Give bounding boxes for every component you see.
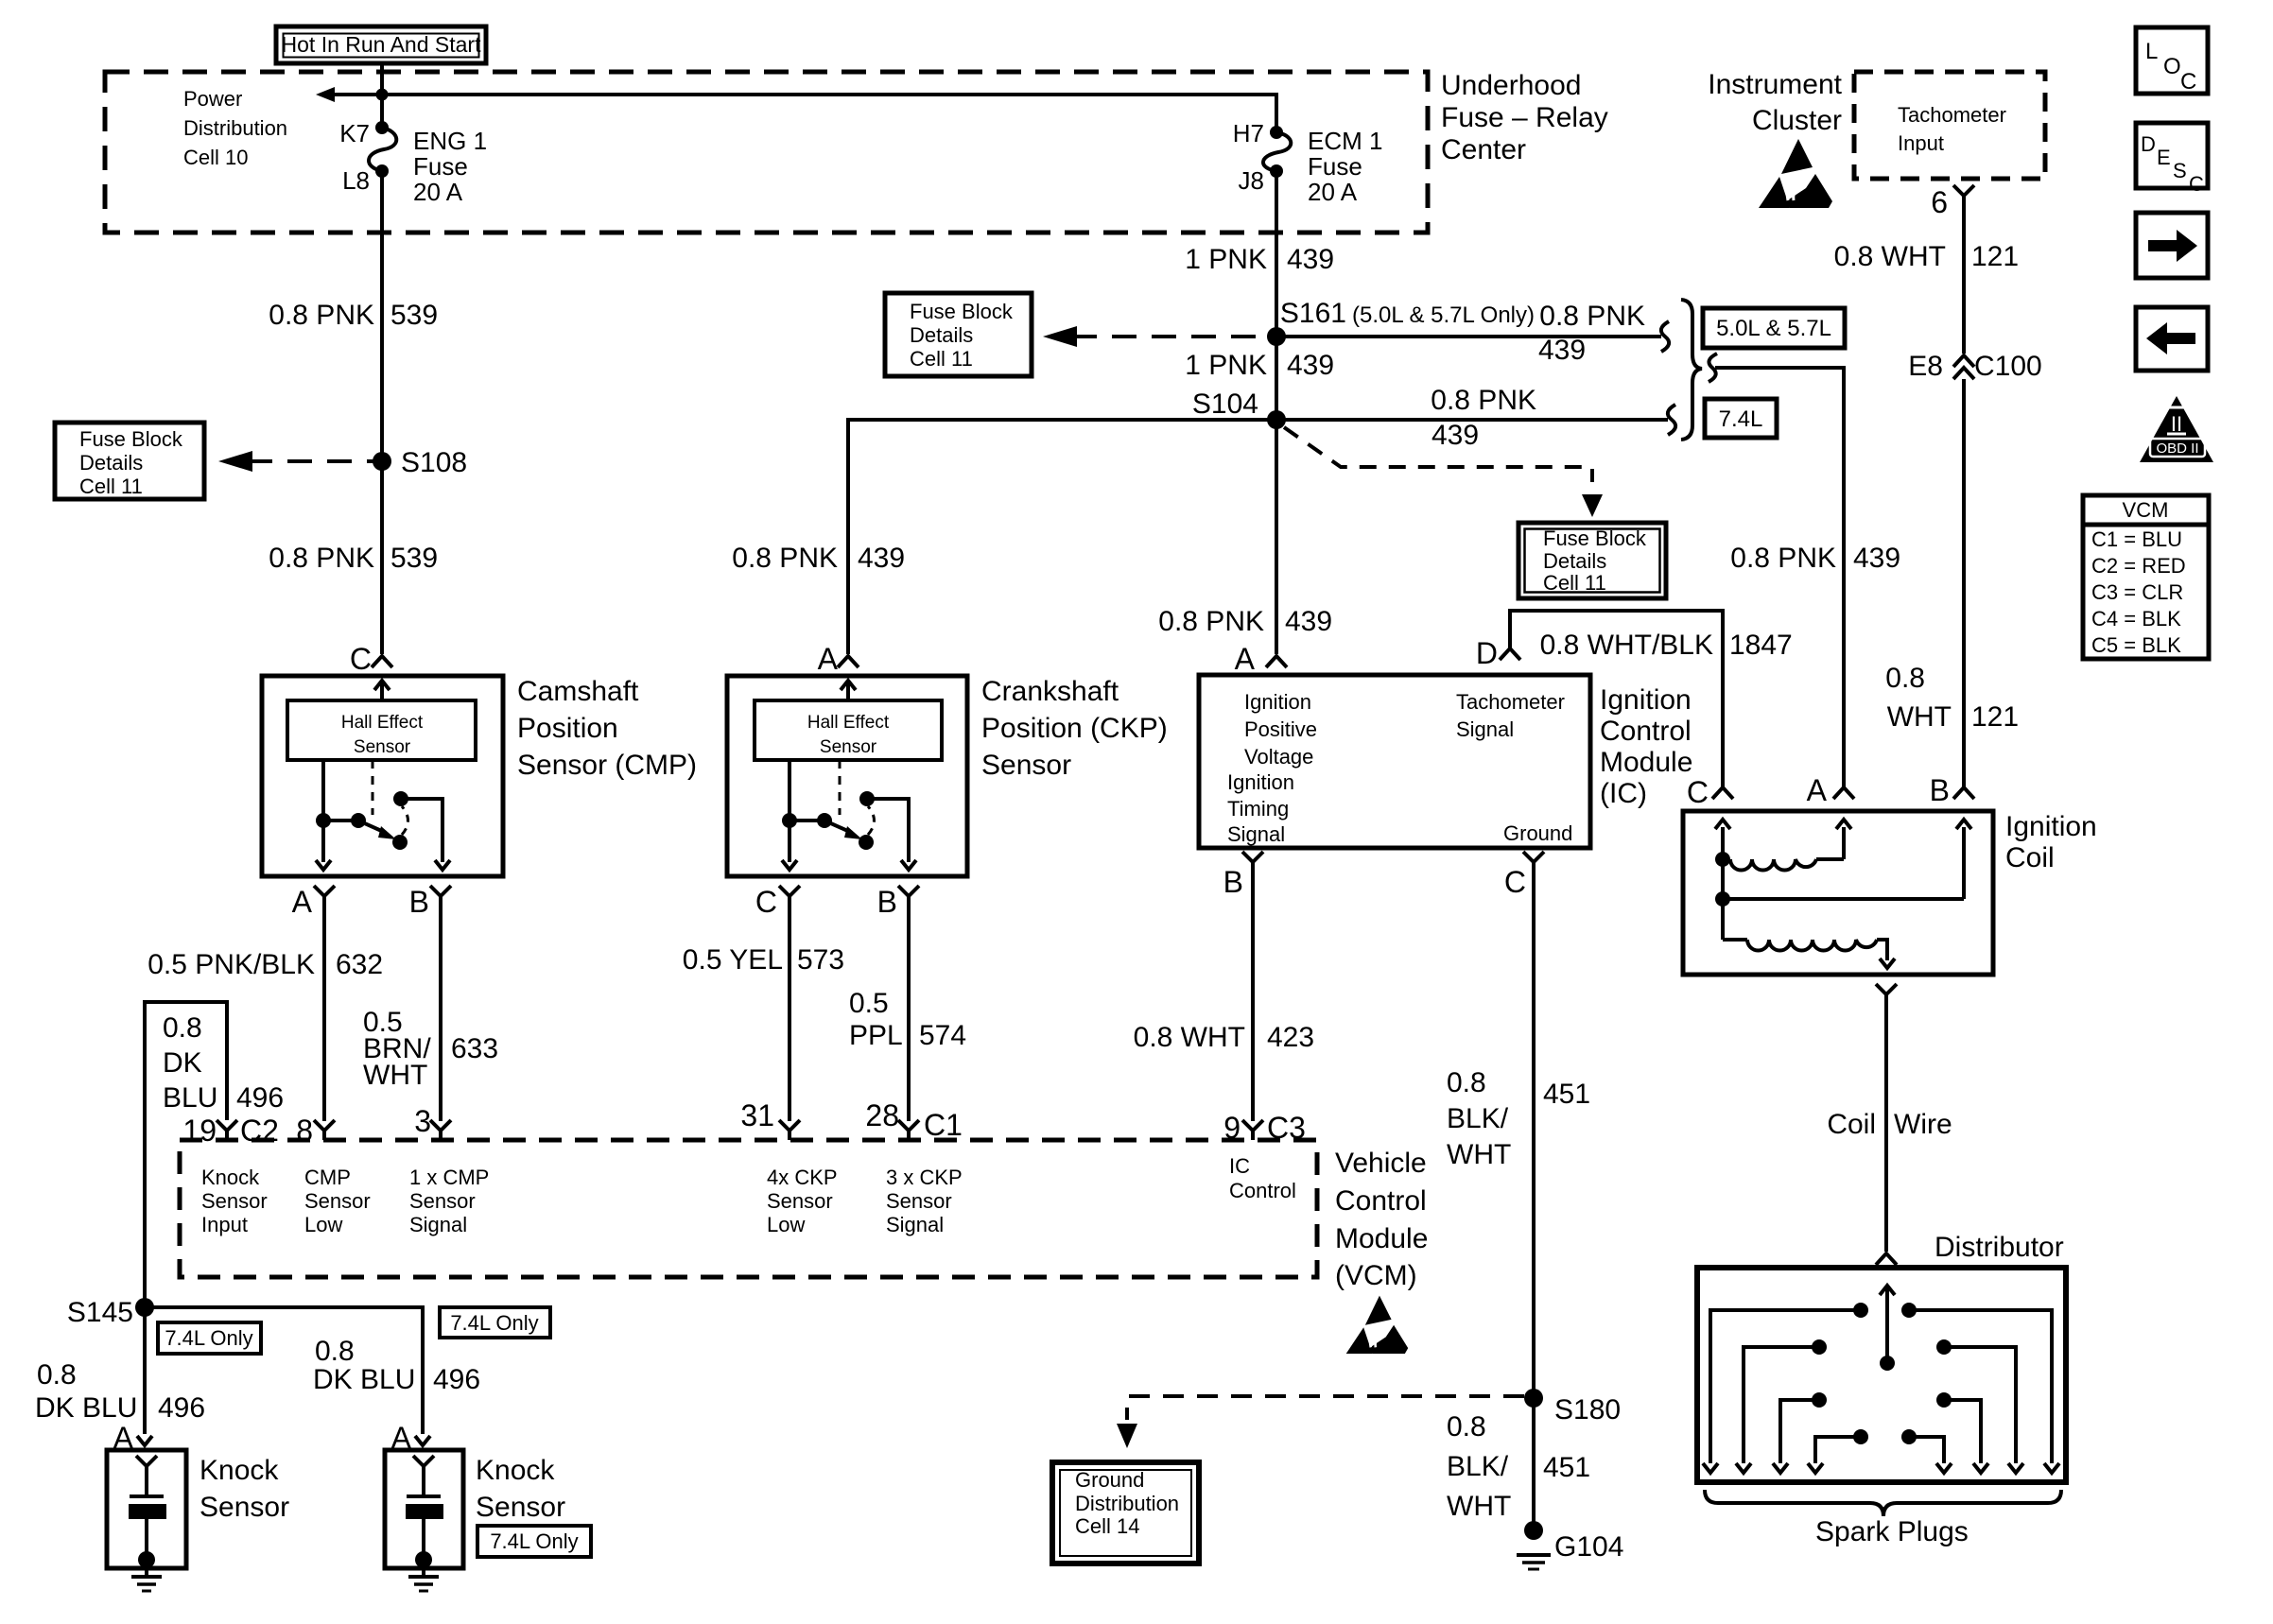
reference box: Fuse Block Details Cell 11 (left) xyxy=(55,423,204,499)
svg-text:CMP: CMP xyxy=(304,1166,351,1189)
label: 1 PNK 439 lower xyxy=(1185,350,1334,381)
svg-text:Positive: Positive xyxy=(1244,717,1317,741)
svg-text:Hall Effect: Hall Effect xyxy=(807,713,890,733)
svg-text:Sensor: Sensor xyxy=(200,1492,289,1523)
svg-text:C: C xyxy=(2189,172,2204,196)
engine tag box: 5.0L & 5.7L xyxy=(1703,308,1845,348)
svg-text:IC: IC xyxy=(1229,1154,1250,1178)
svg-text:C3 = CLR: C3 = CLR xyxy=(2091,580,2183,604)
svg-text:Sensor: Sensor xyxy=(201,1189,268,1213)
svg-text:DK BLU: DK BLU xyxy=(35,1392,137,1424)
svg-text:0.8: 0.8 xyxy=(315,1336,355,1367)
hall effect sensor box (CMP) xyxy=(287,700,476,760)
wire: C100 to ignition coil B (0.8 WHT 121) xyxy=(1962,379,1966,787)
svg-text:BLK/: BLK/ xyxy=(1447,1103,1509,1134)
svg-text:121: 121 xyxy=(1971,241,2019,272)
svg-text:Position: Position xyxy=(517,713,618,744)
svg-text:423: 423 xyxy=(1267,1022,1314,1053)
svg-text:Coil: Coil xyxy=(2005,842,2055,873)
svg-text:Fuse Block: Fuse Block xyxy=(79,427,183,451)
svg-text:Ignition: Ignition xyxy=(1600,684,1692,716)
svg-text:1847: 1847 xyxy=(1729,630,1793,661)
svg-text:Underhood: Underhood xyxy=(1441,70,1581,101)
svg-text:451: 451 xyxy=(1543,1452,1590,1483)
distributor cap terminal 7 (right) xyxy=(1936,1339,2023,1473)
wire: coil wire to distributor xyxy=(1884,994,1888,1252)
svg-text:Distribution: Distribution xyxy=(183,116,287,140)
dashed box: Underhood Fuse-Relay Center xyxy=(105,72,1428,233)
ignition coil output connector xyxy=(1876,984,1897,994)
nav icon: forward arrow xyxy=(2136,213,2208,278)
svg-text:A: A xyxy=(292,885,313,919)
svg-text:Signal: Signal xyxy=(886,1213,944,1236)
nav icon: DESC xyxy=(2136,123,2208,196)
svg-text:Ground: Ground xyxy=(1075,1468,1144,1492)
label: 0.8 PNK 539 lower xyxy=(269,543,438,574)
label: 0.8 WHT 121 lower xyxy=(1885,663,2019,733)
label: 0.8 PNK 439 (S161 branch) xyxy=(1538,301,1645,366)
distributor rotor arrow xyxy=(1880,1286,1895,1371)
splice S108 xyxy=(373,447,467,478)
distributor cap terminal 8 (right outer) xyxy=(1901,1303,2059,1473)
svg-text:0.5 PNK/BLK: 0.5 PNK/BLK xyxy=(147,949,315,980)
engine tag box: 7.4L xyxy=(1705,399,1777,438)
dashed arrow: S108 to fuse block details xyxy=(218,451,374,472)
VCM pin function labels xyxy=(201,1154,1296,1236)
svg-text:Fuse: Fuse xyxy=(413,152,468,181)
svg-text:Sensor: Sensor xyxy=(981,750,1071,781)
svg-text:Sensor: Sensor xyxy=(354,737,411,757)
svg-text:S108: S108 xyxy=(401,447,467,478)
svg-text:Details: Details xyxy=(1543,549,1606,573)
svg-text:0.8: 0.8 xyxy=(37,1359,77,1391)
wire: CKP B to VCM pin 28 (0.5 PPL 574) xyxy=(907,896,911,1121)
power feed box: Hot In Run And Start xyxy=(276,26,486,63)
svg-text:C: C xyxy=(1687,775,1709,809)
svg-text:0.8 PNK: 0.8 PNK xyxy=(1431,385,1536,416)
svg-text:(IC): (IC) xyxy=(1600,778,1647,809)
label: 0.5 YEL 573 xyxy=(683,944,844,976)
svg-text:0.5: 0.5 xyxy=(849,988,889,1019)
VCM pin 31 xyxy=(740,1098,800,1140)
label: Ignition Coil xyxy=(2005,811,2097,873)
pin B of CKP xyxy=(877,885,919,919)
svg-text:Cell 11: Cell 11 xyxy=(1543,571,1606,595)
svg-text:0.8 WHT/BLK: 0.8 WHT/BLK xyxy=(1540,630,1713,661)
vehicle control module (VCM) dashed box xyxy=(180,1140,1317,1277)
svg-text:0.8: 0.8 xyxy=(1447,1067,1486,1098)
svg-text:S: S xyxy=(2173,159,2187,182)
svg-text:Control: Control xyxy=(1335,1185,1427,1217)
svg-text:0.8 PNK: 0.8 PNK xyxy=(1539,301,1645,332)
svg-text:C4 = BLK: C4 = BLK xyxy=(2091,607,2181,631)
svg-text:8: 8 xyxy=(296,1114,313,1148)
svg-text:WHT: WHT xyxy=(1447,1491,1511,1522)
svg-text:O: O xyxy=(2163,54,2181,79)
svg-text:Sensor: Sensor xyxy=(767,1189,833,1213)
svg-text:Cell 11: Cell 11 xyxy=(910,347,973,371)
svg-text:Timing: Timing xyxy=(1227,797,1289,821)
VCM pin 19 C2 xyxy=(182,1114,279,1148)
label: Instrument Cluster xyxy=(1708,69,1842,136)
wire: ECM 1 fuse to IC pin A (1 PNK 439) xyxy=(1275,171,1278,654)
VCM connector legend box xyxy=(2083,495,2209,659)
pin C of ignition coil xyxy=(1687,775,1733,809)
svg-text:Knock: Knock xyxy=(200,1455,279,1486)
label: 0.8 BLK/WHT 451 upper xyxy=(1447,1067,1590,1170)
svg-text:19: 19 xyxy=(182,1114,217,1148)
svg-text:Ignition: Ignition xyxy=(1227,770,1294,794)
arrowhead into right knock sensor xyxy=(415,1436,430,1445)
label: Crankshaft Position (CKP) Sensor xyxy=(981,676,1168,781)
svg-text:C: C xyxy=(350,642,372,676)
svg-text:Input: Input xyxy=(1898,131,1944,155)
distributor input connector xyxy=(1876,1253,1897,1265)
ground below left knock sensor xyxy=(131,1568,162,1591)
svg-text:Spark Plugs: Spark Plugs xyxy=(1815,1516,1969,1547)
label: 0.8 WHT 423 xyxy=(1134,1022,1314,1053)
svg-text:Crankshaft: Crankshaft xyxy=(981,676,1119,707)
svg-text:Sensor (CMP): Sensor (CMP) xyxy=(517,750,697,781)
label: Ignition Control Module (IC) xyxy=(1600,684,1692,809)
svg-text:C: C xyxy=(755,885,777,919)
svg-text:Tachometer: Tachometer xyxy=(1456,690,1565,714)
label: ENG 1 Fuse 20 A xyxy=(413,127,487,206)
svg-text:Coil: Coil xyxy=(1827,1109,1876,1140)
svg-text:ENG 1: ENG 1 xyxy=(413,127,487,155)
OBD II symbol xyxy=(2140,396,2213,462)
svg-text:E: E xyxy=(2157,146,2171,169)
svg-text:632: 632 xyxy=(336,949,383,980)
ESD symbol (VCM) xyxy=(1346,1296,1409,1354)
svg-text:OBD II: OBD II xyxy=(2156,441,2198,457)
distributor cap terminal 4 (left center) xyxy=(1808,1429,1868,1473)
svg-text:WHT: WHT xyxy=(1887,701,1952,733)
label: 0.5 BRN/WHT 633 xyxy=(363,1007,498,1091)
label: Coil Wire xyxy=(1827,1109,1952,1140)
dashed box: Tachometer Input xyxy=(1854,72,2045,179)
engine tag box: 7.4L Only (left) xyxy=(158,1322,261,1354)
distributor cap terminal 5 (right center) xyxy=(1901,1429,1952,1473)
svg-text:Camshaft: Camshaft xyxy=(517,676,639,707)
svg-text:Wire: Wire xyxy=(1894,1109,1952,1140)
VCM pin 9 C3 xyxy=(1223,1111,1306,1145)
svg-text:496: 496 xyxy=(158,1392,205,1424)
arrowhead into left knock sensor xyxy=(137,1436,152,1445)
svg-text:1 x CMP: 1 x CMP xyxy=(409,1166,489,1189)
pin D of IC xyxy=(1476,636,1520,670)
svg-text:Fuse Block: Fuse Block xyxy=(1543,527,1647,550)
label: 0.8 DK BLU 496 (loop) xyxy=(163,1012,284,1114)
distributor cap terminal 6 (right inner) xyxy=(1936,1392,1988,1473)
pin A of CKP xyxy=(818,642,859,676)
wire: IC B to VCM pin 9 (0.8 WHT 423) xyxy=(1251,862,1255,1121)
svg-text:(5.0L & 5.7L Only): (5.0L & 5.7L Only) xyxy=(1352,302,1535,328)
label: 0.5 PNK/BLK 632 xyxy=(147,949,383,980)
svg-text:Cell 11: Cell 11 xyxy=(79,475,143,498)
hall effect sensor box (CKP) xyxy=(755,700,942,760)
wire: S145 to right knock sensor (0.8 DK BLU 496) xyxy=(145,1307,423,1434)
svg-text:3 x CKP: 3 x CKP xyxy=(886,1166,963,1189)
engine tag box: 7.4L Only (right) xyxy=(440,1307,550,1338)
svg-text:439: 439 xyxy=(1285,606,1332,637)
label: 0.8 WHT/BLK 1847 xyxy=(1540,630,1793,661)
VCM pin 3 xyxy=(414,1104,451,1140)
svg-text:C100: C100 xyxy=(1974,351,2042,382)
svg-text:Control: Control xyxy=(1600,716,1692,747)
svg-text:VCM: VCM xyxy=(2123,498,2169,522)
label: 0.8 BLK/WHT 451 lower xyxy=(1447,1411,1590,1522)
pin C of CKP xyxy=(755,885,800,919)
ignition control module (IC) box xyxy=(1199,675,1590,848)
arrowhead on feed bus xyxy=(316,87,335,102)
svg-text:(VCM): (VCM) xyxy=(1335,1260,1417,1291)
label: Knock Sensor (left) xyxy=(200,1455,289,1523)
label: Vehicle Control Module (VCM) xyxy=(1335,1148,1428,1291)
wire: joined feed to ignition coil A (0.8 PNK 439) xyxy=(1709,354,1844,787)
label: Tachometer Input xyxy=(1898,103,2006,155)
svg-text:D: D xyxy=(1476,636,1498,670)
svg-text:Low: Low xyxy=(304,1213,342,1236)
svg-text:B: B xyxy=(1223,865,1243,899)
svg-text:574: 574 xyxy=(919,1020,966,1051)
svg-text:7.4L Only: 7.4L Only xyxy=(490,1529,578,1553)
pin 6 of tachometer input xyxy=(1931,185,1974,219)
svg-text:BLU: BLU xyxy=(163,1082,217,1114)
svg-text:Hot In Run And Start: Hot In Run And Start xyxy=(282,32,482,57)
splice S161 xyxy=(1267,298,1535,346)
svg-text:E8: E8 xyxy=(1908,351,1943,382)
wire: IC D to ignition coil C (0.8 WHT/BLK 1847) xyxy=(1510,611,1723,787)
svg-text:DK BLU: DK BLU xyxy=(313,1364,415,1395)
wire: tachometer input to connector C100 (0.8 WHT 121) xyxy=(1962,196,1966,354)
distributor box xyxy=(1697,1268,2066,1482)
splice S145 xyxy=(67,1297,154,1328)
wire: S104 to 7.4L feed (0.8 PNK 439) xyxy=(1276,405,1675,435)
svg-text:C: C xyxy=(1504,865,1526,899)
svg-text:439: 439 xyxy=(1287,244,1334,275)
svg-text:Sensor: Sensor xyxy=(304,1189,371,1213)
svg-text:20 A: 20 A xyxy=(413,178,463,206)
ESD symbol (instrument cluster) xyxy=(1759,139,1832,208)
svg-text:C2: C2 xyxy=(240,1114,279,1148)
svg-text:B: B xyxy=(1930,773,1950,807)
svg-text:Fuse Block: Fuse Block xyxy=(910,300,1014,323)
label: 0.8 PNK 439 (IC feed) xyxy=(1158,606,1332,637)
camshaft position sensor (CMP) box xyxy=(262,676,503,876)
svg-text:Knock: Knock xyxy=(476,1455,555,1486)
IC pin function labels xyxy=(1227,690,1572,846)
spark plugs brace xyxy=(1705,1490,2061,1516)
svg-text:439: 439 xyxy=(1287,350,1334,381)
svg-text:Center: Center xyxy=(1441,134,1526,165)
svg-text:0.8 WHT: 0.8 WHT xyxy=(1134,1022,1245,1053)
svg-text:5.0L & 5.7L: 5.0L & 5.7L xyxy=(1716,316,1831,341)
wire: CKP C to VCM pin 31 (0.5 YEL 573) xyxy=(788,896,791,1121)
svg-text:Cell 14: Cell 14 xyxy=(1075,1514,1139,1538)
label: 0.8 PNK 439 (S104 branch) xyxy=(1431,385,1536,451)
svg-text:Ignition: Ignition xyxy=(2005,811,2097,842)
svg-text:0.8 WHT: 0.8 WHT xyxy=(1834,241,1946,272)
svg-text:G104: G104 xyxy=(1554,1531,1623,1563)
svg-text:WHT: WHT xyxy=(363,1060,427,1091)
svg-text:439: 439 xyxy=(1538,335,1586,366)
svg-text:Details: Details xyxy=(79,451,143,475)
wire: hot feed from box to ENG 1 fuse xyxy=(380,63,384,128)
CKP internal feed arrow xyxy=(841,681,856,700)
pin B of CMP xyxy=(409,885,451,919)
svg-text:7.4L Only: 7.4L Only xyxy=(165,1326,252,1350)
reference box: Fuse Block Details Cell 11 (middle) xyxy=(885,293,1032,376)
svg-text:Fuse – Relay: Fuse – Relay xyxy=(1441,102,1608,133)
wire: feed bus to ECM 1 fuse xyxy=(329,95,1276,132)
svg-text:0.8 PNK: 0.8 PNK xyxy=(1730,543,1836,574)
svg-text:496: 496 xyxy=(236,1082,284,1114)
svg-text:439: 439 xyxy=(1853,543,1900,574)
svg-text:539: 539 xyxy=(390,543,438,574)
svg-text:A: A xyxy=(1235,642,1256,676)
ground G104 xyxy=(1517,1521,1623,1569)
nav icon: back arrow xyxy=(2136,307,2208,371)
svg-text:B: B xyxy=(409,885,429,919)
svg-text:C5 = BLK: C5 = BLK xyxy=(2091,633,2181,657)
svg-text:BLK/: BLK/ xyxy=(1447,1451,1509,1482)
svg-text:3: 3 xyxy=(414,1104,431,1138)
svg-text:L8: L8 xyxy=(342,166,370,195)
svg-text:WHT: WHT xyxy=(1447,1139,1511,1170)
reference box: Fuse Block Details Cell 11 (right) xyxy=(1518,523,1666,598)
svg-text:Signal: Signal xyxy=(409,1213,467,1236)
svg-text:Low: Low xyxy=(767,1213,805,1236)
ignition coil internals: primary winding xyxy=(1715,820,1851,871)
svg-text:Instrument: Instrument xyxy=(1708,69,1842,100)
pin A of CMP xyxy=(292,885,335,919)
label: Camshaft Position Sensor (CMP) xyxy=(517,676,697,781)
svg-text:0.8 PNK: 0.8 PNK xyxy=(269,543,374,574)
svg-text:1 PNK: 1 PNK xyxy=(1185,350,1267,381)
svg-text:Sensor: Sensor xyxy=(886,1189,952,1213)
dashed wire: S104 to fuse block details arrow xyxy=(1284,427,1603,517)
svg-text:H7: H7 xyxy=(1233,119,1264,147)
label: 0.8 DK BLU 496 (right knock) xyxy=(313,1336,480,1395)
svg-text:D: D xyxy=(2141,132,2156,156)
pin C of IC (ground) xyxy=(1504,852,1544,899)
svg-text:J8: J8 xyxy=(1239,166,1264,195)
svg-text:0.5 YEL: 0.5 YEL xyxy=(683,944,783,976)
crankshaft position sensor (CKP) box xyxy=(727,676,967,876)
svg-text:Ignition: Ignition xyxy=(1244,690,1311,714)
label: 0.8 WHT 121 upper xyxy=(1834,241,2019,272)
svg-text:C3: C3 xyxy=(1267,1111,1306,1145)
svg-text:28: 28 xyxy=(865,1098,899,1132)
svg-text:Ground: Ground xyxy=(1503,821,1572,845)
svg-text:0.8 PNK: 0.8 PNK xyxy=(269,300,374,331)
pin C of CMP xyxy=(350,642,392,676)
svg-text:Sensor: Sensor xyxy=(409,1189,476,1213)
svg-text:633: 633 xyxy=(451,1033,498,1064)
svg-text:9: 9 xyxy=(1223,1111,1241,1145)
VCM pin 8 xyxy=(296,1114,335,1148)
svg-text:31: 31 xyxy=(740,1098,774,1132)
svg-text:496: 496 xyxy=(433,1364,480,1395)
svg-text:S161: S161 xyxy=(1280,298,1346,329)
svg-text:439: 439 xyxy=(858,543,905,574)
CMP internal switch xyxy=(316,760,450,870)
svg-text:Input: Input xyxy=(201,1213,248,1236)
wire: ENG 1 fuse to CMP pin C (0.8 PNK 539) xyxy=(380,171,384,654)
brace joining engine feeds xyxy=(1681,300,1702,440)
label: Power Distribution Cell 10 xyxy=(183,87,287,169)
splice S180 xyxy=(1524,1389,1621,1425)
svg-text:S180: S180 xyxy=(1554,1394,1621,1425)
svg-text:Distribution: Distribution xyxy=(1075,1492,1179,1515)
svg-text:4x CKP: 4x CKP xyxy=(767,1166,838,1189)
label: Underhood Fuse - Relay Center xyxy=(1441,70,1608,165)
junction on feed bus xyxy=(376,89,389,101)
svg-text:C1 = BLU: C1 = BLU xyxy=(2091,527,2182,551)
svg-text:573: 573 xyxy=(797,944,844,976)
VCM pin 28 C1 xyxy=(865,1098,963,1142)
svg-text:1 PNK: 1 PNK xyxy=(1185,244,1267,275)
svg-text:C2 = RED: C2 = RED xyxy=(2091,554,2186,578)
svg-text:C1: C1 xyxy=(924,1108,963,1142)
svg-text:A: A xyxy=(1807,773,1828,807)
splice S104 xyxy=(1192,389,1286,429)
wire: CMP B to VCM pin 3 (0.5 BRN/WHT 633) xyxy=(439,896,442,1121)
svg-text:0.8: 0.8 xyxy=(1447,1411,1486,1443)
fuse ENG 1 xyxy=(369,121,396,178)
svg-text:Sensor: Sensor xyxy=(820,737,877,757)
ignition coil internals: secondary winding xyxy=(1723,859,1895,968)
wire: IC C to G104 (0.8 BLK/WHT 451) xyxy=(1532,862,1536,1530)
svg-text:7.4L: 7.4L xyxy=(1719,406,1763,432)
distributor cap terminal 3 (left inner) xyxy=(1773,1392,1827,1473)
connector E8 C100 xyxy=(1908,351,2041,382)
label: 0.8 DK BLU 496 (left knock) xyxy=(35,1359,205,1424)
distributor cap terminal 1 (left outer) xyxy=(1703,1303,1868,1473)
svg-text:Vehicle: Vehicle xyxy=(1335,1148,1427,1179)
svg-text:S145: S145 xyxy=(67,1297,133,1328)
label: 0.5 PPL 574 xyxy=(849,988,966,1051)
dashed arrow: S161 to fuse block details xyxy=(1043,326,1269,347)
svg-text:Position (CKP): Position (CKP) xyxy=(981,713,1168,744)
svg-text:Cluster: Cluster xyxy=(1752,105,1842,136)
svg-text:Voltage: Voltage xyxy=(1244,745,1313,769)
svg-text:K7: K7 xyxy=(339,119,370,147)
svg-text:PPL: PPL xyxy=(849,1020,903,1051)
label: 0.8 PNK 439 (CKP feed) xyxy=(732,543,905,574)
svg-text:A: A xyxy=(818,642,839,676)
svg-text:0.8 PNK: 0.8 PNK xyxy=(1158,606,1264,637)
svg-text:S104: S104 xyxy=(1192,389,1258,420)
wire: CMP A to VCM pin 8 (0.5 PNK/BLK 632) xyxy=(322,896,326,1121)
svg-text:539: 539 xyxy=(390,300,438,331)
knock sensor box (right) xyxy=(385,1450,463,1568)
pin A of ignition coil xyxy=(1807,773,1854,807)
svg-text:121: 121 xyxy=(1971,701,2019,733)
label: 1 PNK 439 upper xyxy=(1185,244,1334,275)
wire: VCM pin 19 loop to S145 (0.8 DK BLU 496) xyxy=(145,1002,227,1434)
reference box: Ground Distribution Cell 14 xyxy=(1052,1462,1199,1564)
CMP internal feed arrow xyxy=(374,681,390,700)
engine tag box: 7.4L Only (bottom) xyxy=(477,1526,591,1557)
svg-text:Sensor: Sensor xyxy=(476,1492,565,1523)
ignition coil box xyxy=(1683,811,1993,975)
ground below right knock sensor xyxy=(408,1568,439,1591)
svg-text:L: L xyxy=(2145,39,2158,64)
svg-text:Fuse: Fuse xyxy=(1308,152,1362,181)
svg-text:Tachometer: Tachometer xyxy=(1898,103,2006,127)
